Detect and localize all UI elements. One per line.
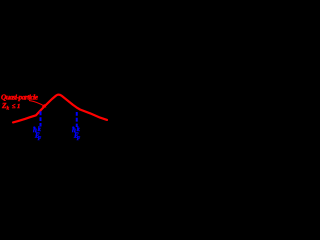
svg-text:Quasi-particle: Quasi-particle xyxy=(1,93,39,102)
svg-text:Zk ≤ 1: Zk ≤ 1 xyxy=(1,101,20,112)
svg-text:F: F xyxy=(77,137,81,142)
svg-text:F: F xyxy=(38,137,42,142)
